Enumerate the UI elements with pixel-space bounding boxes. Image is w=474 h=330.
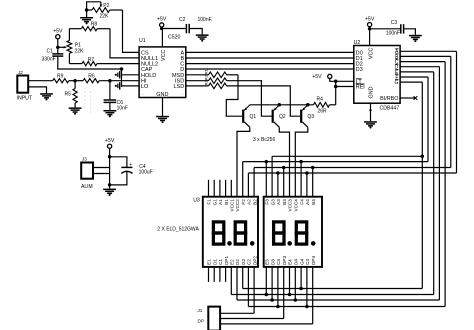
ground at J2 <box>40 93 53 100</box>
svg-text:DP2: DP2 <box>252 256 257 265</box>
svg-text:D1: D1 <box>212 259 217 265</box>
wire DP4 riser <box>312 267 314 324</box>
svg-text:J1: J1 <box>198 308 203 313</box>
wire U1 A to U2 D0 <box>186 51 354 53</box>
wire U2 GND <box>369 103 371 121</box>
node U2 VCC junction <box>368 27 372 31</box>
svg-text:G2: G2 <box>241 258 246 265</box>
svg-text:REI: REI <box>356 85 365 91</box>
wire B2 riser <box>253 168 255 197</box>
svg-text:E1: E1 <box>207 259 212 265</box>
wire bus E bottom <box>231 293 433 297</box>
svg-text:R3: R3 <box>204 80 209 86</box>
svg-text:D3: D3 <box>270 259 275 265</box>
svg-text:A1: A1 <box>218 199 223 205</box>
svg-text:D4: D4 <box>294 259 299 265</box>
wire U1 D to U2 D3 <box>186 68 354 70</box>
wire U2 B output <box>400 55 451 57</box>
wire E2 riser <box>230 267 232 295</box>
resistor R1 <box>186 68 227 77</box>
ground at U2 <box>364 121 377 128</box>
ground at R5 <box>69 107 82 114</box>
svg-text:R4: R4 <box>317 97 324 103</box>
wire R6 to HI <box>99 80 139 82</box>
svg-text:10nF: 10nF <box>117 106 128 112</box>
wire B3 riser <box>283 168 285 197</box>
ground at J3 <box>103 189 116 196</box>
svg-text:3 x Bc256: 3 x Bc256 <box>253 137 275 143</box>
svg-text:P2: P2 <box>103 3 109 9</box>
wire R8 to NULL1 <box>110 29 139 58</box>
wire A3 riser <box>277 173 279 197</box>
svg-text:G4: G4 <box>299 258 304 265</box>
ground at U1 <box>156 116 169 123</box>
svg-text:B2: B2 <box>252 199 257 205</box>
svg-text:+5V: +5V <box>53 29 63 35</box>
svg-text:A4: A4 <box>305 199 310 205</box>
svg-text:100uF: 100uF <box>139 170 153 176</box>
wire bus vertical G <box>421 82 423 288</box>
svg-text:DP: DP <box>198 319 204 324</box>
svg-text:C3: C3 <box>391 20 398 26</box>
wire emitter rail +5V <box>250 104 314 106</box>
svg-text:C1: C1 <box>218 259 223 265</box>
display digit 4 <box>296 222 315 246</box>
svg-text:G: G <box>395 80 399 86</box>
node C6 junction <box>108 79 112 83</box>
svg-text:R7: R7 <box>88 57 95 63</box>
svg-text:R6: R6 <box>88 74 95 80</box>
wire bus A <box>248 171 456 175</box>
connector J1 DP <box>198 307 221 330</box>
svg-text:R8: R8 <box>91 22 98 28</box>
svg-text:C1: C1 <box>47 49 54 55</box>
capacitor C4 100uF <box>110 157 153 185</box>
svg-text:R9: R9 <box>57 74 64 80</box>
svg-text:C520: C520 <box>168 35 181 41</box>
svg-text:C2: C2 <box>179 17 186 23</box>
svg-text:VCC2: VCC2 <box>235 199 240 212</box>
svg-text:Q3: Q3 <box>308 114 315 120</box>
wire Q2 collector to VCC3 <box>279 127 289 197</box>
svg-text:VCC: VCC <box>161 50 167 61</box>
transistor Q1 <box>242 105 256 127</box>
wire J2 lower to ground <box>28 87 46 93</box>
svg-text:D2: D2 <box>235 259 240 265</box>
label 3 x Bc256 <box>253 137 275 143</box>
node RBI junction <box>334 85 338 89</box>
capacitor C2 100nF <box>162 17 213 35</box>
svg-text:U1: U1 <box>139 38 146 44</box>
svg-text:+5V: +5V <box>312 74 322 80</box>
display digit 2 <box>235 222 254 246</box>
wire U2 C output <box>400 61 445 63</box>
display top pin labels <box>207 199 316 212</box>
wire Q3 collector to VCC4 <box>295 127 308 197</box>
wire U2 F output <box>400 76 428 78</box>
svg-text:F2: F2 <box>241 199 246 205</box>
resistor R9 <box>53 74 69 83</box>
wire F4 riser <box>300 162 302 197</box>
svg-text:Q2: Q2 <box>279 114 286 120</box>
svg-text:G3: G3 <box>270 199 275 206</box>
potentiometer P1 22K <box>58 29 84 64</box>
svg-text:+5V: +5V <box>365 16 375 22</box>
svg-text:100nF: 100nF <box>386 31 400 37</box>
svg-text:R5: R5 <box>65 92 72 98</box>
wire U1 B to U2 D1 <box>186 57 354 59</box>
wire R2 to Q2 base <box>227 81 272 117</box>
svg-text:ALIM: ALIM <box>81 184 93 190</box>
wire G4 riser <box>300 267 302 289</box>
resistor R3 <box>186 80 227 89</box>
resistor R4 <box>314 97 336 115</box>
wire J3 top <box>93 167 110 169</box>
wire D2 riser <box>236 267 238 300</box>
wire F2 riser <box>242 162 244 197</box>
op-amp U2 decoder CDB447 <box>354 40 400 112</box>
display digit 3 <box>274 222 292 246</box>
transistor Q3 <box>300 105 314 127</box>
svg-text:BI/RBO: BI/RBO <box>380 96 398 102</box>
wire J3 vertical <box>109 157 111 189</box>
wire C2 riser <box>247 267 249 307</box>
wire U2 G output <box>400 81 422 83</box>
wire BI/RBO no-connect <box>400 96 417 100</box>
svg-text:GND: GND <box>369 86 375 98</box>
svg-text:E2: E2 <box>230 259 235 265</box>
wire A2 riser <box>247 173 249 197</box>
node C4 bottom junction <box>108 183 112 187</box>
wire U2 VCC to +5V <box>369 29 371 46</box>
svg-text:R1: R1 <box>204 68 209 74</box>
wire U2 E output <box>400 71 434 73</box>
svg-text:E3: E3 <box>265 259 270 265</box>
node Q2 emitter <box>278 103 282 107</box>
display unconnected top stubs <box>209 180 232 197</box>
resistor R7 <box>69 57 139 65</box>
node R5 junction <box>73 79 77 83</box>
wire bus vertical F <box>427 77 429 162</box>
transistor Q2 <box>272 105 286 127</box>
svg-text:B1: B1 <box>224 199 229 205</box>
node Q3 emitter <box>306 103 310 107</box>
svg-text:DP4: DP4 <box>311 256 316 265</box>
svg-text:22K: 22K <box>75 49 85 55</box>
wire J2 to R9 <box>28 80 53 82</box>
svg-text:C3: C3 <box>276 259 281 265</box>
svg-text:+: + <box>129 162 132 168</box>
wire U2 A output <box>400 50 456 52</box>
svg-text:VCC3: VCC3 <box>288 199 293 212</box>
wire E3 riser <box>265 267 267 295</box>
svg-text:G1: G1 <box>212 199 217 206</box>
connector J3 ALIM <box>81 157 93 190</box>
wire R3 to Q3 base <box>227 86 301 116</box>
svg-text:Q1: Q1 <box>250 114 257 120</box>
wire E4 riser <box>289 267 291 295</box>
ground at P2 <box>80 10 93 24</box>
svg-text:CDB447: CDB447 <box>380 106 400 112</box>
node U1 VCC junction <box>160 27 164 31</box>
potentiometer P2 22K <box>85 2 123 20</box>
wire DP2 riser <box>253 267 255 313</box>
wire J1 to DP2 <box>220 312 254 314</box>
wire bus F <box>243 160 428 164</box>
svg-text:LSD: LSD <box>173 84 184 90</box>
svg-text:E4: E4 <box>288 259 293 265</box>
capacitor C6 10nF <box>104 81 128 112</box>
display digit 1 <box>213 222 231 246</box>
+5V terminal U2 <box>365 16 375 28</box>
wire F3 riser <box>265 162 267 197</box>
wire Q1 collector to VCC2 <box>237 127 250 197</box>
wire U1 VCC to +5V <box>161 29 163 47</box>
wire R9 to R6 <box>69 80 83 82</box>
svg-text:DP1: DP1 <box>224 256 229 265</box>
wire bus C bottom <box>248 305 445 309</box>
wire bus G top <box>272 155 424 159</box>
svg-text:U3: U3 <box>193 198 200 204</box>
svg-text:26R: 26R <box>318 109 328 115</box>
svg-text:+5V: +5V <box>157 17 167 23</box>
analog common grounds at CAP-HOLD-LO <box>115 67 139 89</box>
wire bus G bottom <box>243 287 423 291</box>
wire bus D bottom <box>237 298 439 302</box>
wire J1 to DP3 <box>220 318 284 320</box>
wire U1 C to U2 D2 <box>186 63 354 65</box>
svg-text:J2: J2 <box>17 70 23 75</box>
wire bus vertical E <box>433 72 435 295</box>
wire C4 riser <box>306 267 308 307</box>
svg-text:VCC4: VCC4 <box>294 199 299 212</box>
svg-text:F3: F3 <box>265 199 270 205</box>
resistor R6 <box>83 74 99 83</box>
svg-text:C2: C2 <box>247 259 252 265</box>
svg-text:P1: P1 <box>75 42 81 48</box>
display U3 2xELD_512GWA boxes <box>157 197 322 267</box>
wire bus vertical A <box>456 51 458 173</box>
svg-text:DP3: DP3 <box>282 256 287 265</box>
+5V terminal U1 <box>157 17 167 29</box>
svg-text:GND: GND <box>156 92 168 98</box>
resistor R2 <box>186 74 227 83</box>
wire D4 riser <box>294 267 296 300</box>
wire J1 to DP4 <box>220 323 313 325</box>
svg-text:INPUT: INPUT <box>17 96 33 102</box>
+5V terminal J3 <box>105 138 115 157</box>
display bottom pin labels <box>207 256 316 265</box>
capacitor C1 330nF <box>42 47 122 69</box>
wire R1 to Q1 base <box>226 75 242 116</box>
ground at C2 <box>196 34 209 41</box>
svg-text:F1: F1 <box>207 199 212 205</box>
svg-text:330nF: 330nF <box>42 56 56 62</box>
svg-text:J3: J3 <box>82 157 87 162</box>
node LT junction <box>334 80 338 84</box>
svg-text:C4: C4 <box>305 259 310 265</box>
svg-text:D3: D3 <box>356 67 363 73</box>
capacitor C3 100nF <box>370 20 416 36</box>
wire R4 to LT RBI <box>336 81 354 105</box>
node C4 top junction <box>108 155 112 159</box>
svg-text:F4: F4 <box>299 199 304 205</box>
wire DP3 riser <box>283 267 285 319</box>
svg-text:R2: R2 <box>204 74 209 80</box>
svg-text:U2: U2 <box>354 40 361 46</box>
svg-text:VCC1: VCC1 <box>230 199 235 212</box>
wire U2 D output <box>400 66 439 68</box>
node P1 wiper junction <box>56 46 60 50</box>
ground at C3 <box>409 35 422 42</box>
connector J2 INPUT <box>17 70 33 102</box>
svg-text:A3: A3 <box>276 199 281 205</box>
svg-text:LO: LO <box>141 84 149 90</box>
wire B4 riser <box>312 168 314 197</box>
+5V terminal P1 <box>53 29 63 48</box>
wire A4 riser <box>306 173 308 197</box>
svg-text:A2: A2 <box>247 199 252 205</box>
wire P2 to CS <box>123 10 140 52</box>
svg-text:B3: B3 <box>282 199 287 205</box>
svg-text:+5V: +5V <box>105 138 115 144</box>
svg-text:B4: B4 <box>311 199 316 205</box>
svg-text:22K: 22K <box>100 13 110 19</box>
+5V terminal LT <box>312 74 335 81</box>
wire bus vertical C <box>444 62 446 307</box>
display unconnected bottom stubs <box>209 267 226 282</box>
wire bus vertical D <box>438 67 440 300</box>
wire U1 GND <box>162 98 164 116</box>
wire C3 riser <box>277 267 279 307</box>
op-amp U1 ADC C520 <box>139 35 186 98</box>
wire G2 riser <box>242 267 244 289</box>
wire bus B <box>254 166 451 170</box>
resistor R8 <box>69 22 110 31</box>
ground at C6 <box>104 110 117 117</box>
wire J3 bottom <box>93 173 110 175</box>
resistor R5 <box>65 81 78 108</box>
wire G3 riser <box>271 156 273 196</box>
svg-text:2 X ELD_512GWA: 2 X ELD_512GWA <box>157 227 199 233</box>
svg-text:VCC: VCC <box>369 48 375 59</box>
svg-text:100nF.: 100nF. <box>198 17 213 23</box>
wire D3 riser <box>271 267 273 300</box>
wire bus vertical B <box>450 56 452 167</box>
